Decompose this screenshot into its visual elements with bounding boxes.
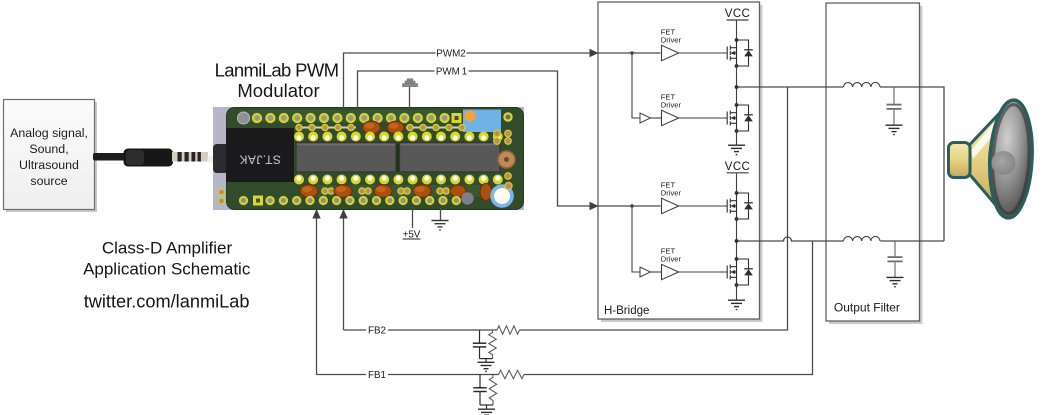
svg-text:VCC: VCC — [725, 8, 750, 20]
audio jack plug body — [124, 149, 174, 167]
svg-text:Analog signal,: Analog signal, — [10, 126, 88, 140]
node output B — [735, 239, 739, 243]
ground FB1 — [478, 409, 495, 415]
svg-text:Driver: Driver — [661, 101, 682, 110]
svg-text:FB1: FB1 — [368, 370, 386, 381]
PCB electrolytic caps top — [363, 121, 404, 134]
+5V supply pyramid symbol — [403, 79, 418, 87]
PCB copper terminal right — [498, 151, 515, 168]
PCB bottom hole row — [219, 189, 460, 206]
wire Q2 source to ground — [736, 131, 738, 145]
Output Filter block — [826, 3, 920, 321]
wire FB1 RC to ground — [480, 404, 493, 406]
PCB board — [227, 108, 524, 210]
speaker cone highlight — [971, 117, 1005, 159]
SECTION: hbridge internals — [630, 8, 753, 310]
Output Filter block shadow — [829, 6, 923, 324]
wire FB2 from output A to PCB — [520, 87, 788, 330]
SECTION: feedback networks — [473, 326, 524, 415]
PCB LED / blue-ring hole — [490, 184, 514, 208]
wire PWM2 from PCB to H-Bridge — [344, 53, 661, 108]
transistor Q1 high-side — [727, 40, 753, 66]
PCB electrolytic caps bottom — [300, 184, 492, 201]
SECTION: filter internals — [844, 82, 904, 286]
audio jack plug shaft with TRRS rings — [172, 152, 208, 162]
wire output B to filter and speaker (hop over FB2) — [737, 237, 844, 241]
FET driver U4 inverter — [640, 267, 651, 277]
wire +5V supply stem above PCB — [409, 86, 411, 108]
wire Q4 source to ground — [736, 285, 738, 300]
speaker rim ellipse — [987, 99, 1035, 219]
speaker terminal — [949, 143, 971, 178]
ground Q2 — [728, 145, 745, 154]
label FB1 — [366, 369, 388, 381]
svg-text:Application Schematic: Application Schematic — [83, 260, 251, 279]
wire ground stub below PCB — [440, 208, 442, 220]
svg-text:Ultrasound: Ultrasound — [19, 158, 79, 172]
wire Q3 source to Q4 drain with output node B — [736, 219, 738, 259]
svg-text:Class-D Amplifier: Class-D Amplifier — [102, 239, 233, 258]
resistor R3 series FB1 — [499, 370, 525, 378]
capacitor C1 — [887, 88, 902, 125]
H-Bridge block shadow — [601, 5, 763, 322]
wire branch to U2 inverter — [632, 53, 640, 118]
SECTION: pcb photo — [213, 107, 524, 210]
FET driver U4 buffer — [662, 264, 679, 279]
PCB DIP socket 1 — [296, 143, 396, 173]
ground Q4 — [728, 300, 745, 309]
source box shadow — [6, 102, 97, 212]
SECTION: left source block — [4, 100, 215, 213]
svg-text:LanmiLab PWM: LanmiLab PWM — [215, 60, 339, 81]
capacitor C4 FB1 to ground — [473, 375, 486, 406]
transistor Q3 high-side — [727, 193, 753, 219]
svg-text:twitter.com/lanmiLab: twitter.com/lanmiLab — [84, 292, 250, 312]
transistor Q4 low-side — [727, 259, 753, 285]
node output A — [735, 85, 739, 89]
label PWM2 — [436, 47, 467, 59]
svg-text:Output Filter: Output Filter — [834, 301, 900, 315]
svg-text:Driver: Driver — [661, 189, 682, 198]
label PWM1 — [435, 65, 469, 77]
PCB blue module — [463, 110, 501, 133]
capacitor C2 — [888, 242, 903, 278]
node branch PWM1 — [630, 204, 633, 207]
FET driver U3 buffer — [662, 198, 679, 213]
H-Bridge block — [598, 2, 760, 319]
SECTION: blocks — [598, 2, 923, 324]
speaker inner ring — [990, 104, 1031, 215]
PCB bottom component row copper pads — [322, 188, 449, 194]
SECTION: speaker — [949, 99, 1036, 219]
resistor R4 FB1 to ground — [489, 375, 496, 406]
wire VCC bottom to Q3 drain — [736, 173, 738, 193]
node branch PWM2 — [630, 51, 633, 54]
wire output A to filter and speaker — [737, 86, 844, 88]
audio jack plug tip — [208, 156, 215, 164]
arrowhead PWM2 into H-Bridge — [590, 49, 599, 57]
PCB gray cap — [461, 192, 473, 204]
svg-text:source: source — [30, 174, 67, 188]
FET driver U2 buffer — [662, 110, 679, 125]
svg-text:Modulator: Modulator — [237, 80, 319, 101]
wire U1 output to Q1 gate — [679, 52, 728, 54]
FET driver U2 inverter — [640, 113, 651, 123]
wire VCC top to Q1 drain — [736, 21, 738, 41]
FET driver U1 buffer — [662, 45, 679, 60]
SECTION: wires — [317, 53, 945, 375]
wire U4 output to Q4 gate — [679, 271, 728, 273]
PCB orange dot — [464, 110, 475, 121]
speaker dome — [992, 151, 1016, 175]
PCB socket gap shadow — [394, 143, 401, 172]
arrowhead FB2 into PCB — [339, 209, 347, 219]
source box label — [10, 126, 88, 188]
svg-text:ST.JAK: ST.JAK — [239, 153, 281, 167]
resistor R1 series FB2 — [497, 326, 520, 334]
resistor R2 FB2 to ground — [489, 330, 496, 359]
PCB photo background — [213, 107, 524, 210]
PCB top hole row 1 — [238, 112, 512, 124]
capacitor C3 FB2 to ground — [473, 330, 486, 359]
ground C1 — [886, 125, 903, 134]
PCB top row 2 copper pads — [296, 124, 466, 130]
wire U2 output to Q2 gate — [679, 117, 728, 119]
PCB jack socket body — [213, 144, 229, 173]
svg-text:VCC: VCC — [725, 161, 750, 173]
ground C2 — [887, 277, 904, 286]
inductor L1 — [844, 82, 881, 87]
arrowhead FB1 into PCB — [312, 209, 320, 219]
ground FB2 — [478, 362, 495, 371]
speaker horn cone — [968, 102, 1010, 217]
PCB scalloped row below sockets — [294, 175, 503, 185]
inductor L2 — [844, 236, 881, 241]
wire branch to U4 inverter — [632, 206, 640, 272]
label FB2 — [366, 324, 388, 336]
svg-text:Driver: Driver — [661, 36, 682, 45]
wire FB1 from output B to PCB — [524, 241, 813, 375]
svg-text:Driver: Driver — [661, 255, 682, 264]
svg-text:Sound,: Sound, — [29, 142, 68, 156]
FET driver U1 label — [661, 28, 682, 45]
svg-text:H-Bridge: H-Bridge — [604, 305, 649, 317]
PCB scalloped row above sockets — [294, 132, 503, 142]
FET driver U4 label — [661, 247, 682, 264]
transistor Q2 low-side — [727, 105, 753, 131]
FET driver U2 label — [661, 93, 682, 110]
svg-text:PWM2: PWM2 — [436, 48, 465, 59]
svg-text:PWM 1: PWM 1 — [436, 67, 467, 78]
PCB DIP socket 2 — [400, 143, 501, 173]
arrowhead PWM1 into H-Bridge — [590, 202, 599, 210]
wire Q1 source to Q2 drain with output node A — [736, 66, 738, 105]
wire PWM1 from PCB to H-Bridge — [358, 71, 661, 206]
SECTION: texts — [83, 60, 338, 312]
svg-text:FB2: FB2 — [368, 326, 386, 337]
ground symbol below PCB — [432, 221, 449, 231]
wire U3 output to Q3 gate — [679, 205, 728, 207]
wire FB2 RC to ground — [480, 358, 493, 360]
audio jack cable — [93, 153, 126, 161]
svg-text:+5V: +5V — [403, 230, 421, 241]
wire +5V stub below PCB — [412, 208, 414, 228]
FET driver U3 label — [661, 181, 682, 198]
source box — [4, 100, 95, 210]
